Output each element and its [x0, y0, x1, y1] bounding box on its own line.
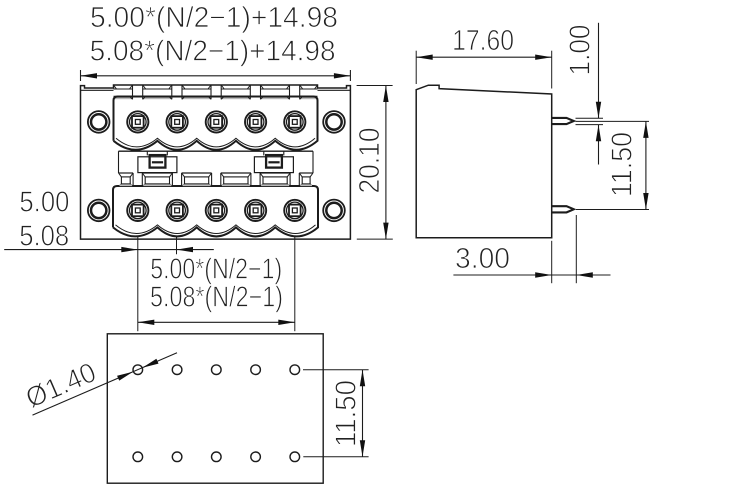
- svg-text:11.50: 11.50: [607, 132, 639, 197]
- svg-text:17.60: 17.60: [452, 25, 514, 57]
- svg-text:1.00: 1.00: [565, 25, 597, 76]
- svg-text:3.00: 3.00: [455, 243, 510, 275]
- svg-text:5.00: 5.00: [19, 187, 69, 219]
- svg-text:5.08*(N/2−1)+14.98: 5.08*(N/2−1)+14.98: [90, 35, 336, 67]
- svg-text:11.50: 11.50: [331, 380, 363, 447]
- svg-text:5.00*(N/2−1): 5.00*(N/2−1): [150, 253, 282, 285]
- svg-text:20.10: 20.10: [354, 128, 386, 194]
- svg-text:Ø1.40: Ø1.40: [21, 356, 100, 413]
- svg-text:5.08*(N/2−1): 5.08*(N/2−1): [150, 282, 283, 314]
- svg-text:5.08: 5.08: [19, 221, 69, 253]
- svg-text:5.00*(N/2−1)+14.98: 5.00*(N/2−1)+14.98: [90, 2, 338, 34]
